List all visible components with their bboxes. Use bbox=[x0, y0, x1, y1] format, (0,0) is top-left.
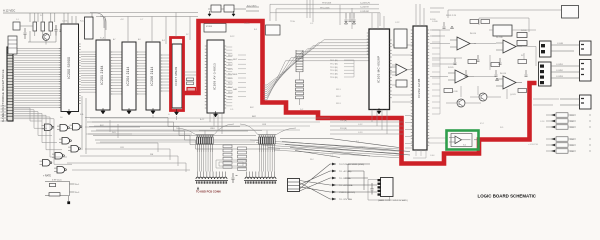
ground arrow C-bank right bbox=[232, 11, 235, 16]
wire bus IC206-IC207 bbox=[160, 55, 171, 91]
resistor group right amp bias bbox=[444, 20, 527, 93]
wire IC202 outputs to audio highlight bbox=[427, 30, 447, 143]
delay line DL201 bbox=[493, 25, 512, 36]
net label speckles sheet-wide bbox=[16, 15, 545, 161]
resistor pair R220 R221 bbox=[517, 33, 527, 46]
svg-text:TO -12V 08A: TO -12V 08A bbox=[339, 198, 352, 201]
svg-text:IC202 AZ4B: IC202 AZ4B bbox=[417, 78, 421, 97]
svg-text:IC208 AY-3-8913: IC208 AY-3-8913 bbox=[213, 63, 217, 90]
wire fan bus to IC205 inputs bbox=[264, 40, 370, 100]
connector P208 bbox=[580, 95, 592, 109]
wire right section interconnects bbox=[430, 10, 561, 105]
resistor array RP202 comb bbox=[258, 135, 276, 152]
svg-text:TP-6 (B): TP-6 (B) bbox=[330, 77, 338, 79]
IC203 latch box bbox=[204, 24, 226, 33]
wire IC205 bottom risers to bus bbox=[372, 110, 387, 135]
wire comb-to-cable verticals bbox=[197, 152, 274, 172]
component cluster crystal network right of IC207 bbox=[184, 72, 196, 94]
svg-text:IC204 2114: IC204 2114 bbox=[126, 66, 130, 85]
IC202 address decoder bbox=[411, 26, 429, 150]
wire +12VDC top rail bbox=[3, 8, 96, 13]
ground arrow below IC201 bbox=[101, 108, 105, 114]
svg-text:C-201: C-201 bbox=[62, 21, 68, 23]
wire CPU top pins bbox=[64, 13, 76, 24]
IC211 buffer box bbox=[394, 29, 407, 48]
svg-text:IC207 MN2N: IC207 MN2N bbox=[174, 66, 178, 85]
connector J206 video out bbox=[540, 41, 580, 57]
svg-text:IN-914: IN-914 bbox=[500, 73, 507, 75]
green highlight box bbox=[447, 131, 479, 150]
capacitor group C210-C213 with grounds bbox=[345, 13, 356, 24]
wire top rail TP lines to right section bbox=[270, 4, 380, 26]
ground arrow below IC208 bbox=[213, 111, 217, 117]
svg-text:C-243 12V: C-243 12V bbox=[360, 2, 371, 4]
svg-text:TO +12V 08A: TO +12V 08A bbox=[339, 184, 353, 187]
wire IC202 top risers bbox=[416, 4, 444, 26]
op-amp U203 bbox=[448, 70, 474, 83]
svg-text:LOGIC BOARD SCHEMATIC: LOGIC BOARD SCHEMATIC bbox=[478, 194, 537, 200]
wire bus IC204-IC206 bbox=[136, 52, 146, 94]
resistor R201 R202 R203 pull-up cluster bbox=[33, 13, 53, 36]
wire stubs SD bus to red trace bbox=[238, 55, 246, 96]
IC205 video controller MC-6528P bbox=[367, 29, 392, 110]
wire bus cartridge-to-CPU address/data lines bbox=[13, 49, 61, 108]
svg-text:R-241 2.2K: R-241 2.2K bbox=[446, 15, 457, 17]
svg-text:+ RATE: + RATE bbox=[43, 175, 51, 178]
svg-text:TP-2 (B): TP-2 (B) bbox=[330, 63, 338, 65]
wire IC205 top risers bbox=[372, 13, 384, 29]
svg-text:R-246: R-246 bbox=[521, 30, 527, 32]
net label column SD bus bbox=[228, 55, 233, 98]
power net arrows and labels bbox=[332, 163, 336, 166]
svg-text:TO +5V (8A): TO +5V (8A) bbox=[339, 170, 352, 173]
resistor array vertical comb RP204 bbox=[296, 50, 303, 72]
svg-text:DL-240: DL-240 bbox=[496, 37, 503, 39]
svg-text:TP-4 (B): TP-4 (B) bbox=[330, 70, 338, 72]
buffer IC212 small box bbox=[85, 17, 94, 39]
capacitor C202 C203 marks bbox=[24, 25, 63, 39]
connector P201 side box bbox=[8, 36, 17, 54]
capacitor row above op-amps bbox=[454, 55, 502, 65]
svg-text:C-244 5V: C-244 5V bbox=[360, 7, 369, 9]
red highlight box around IC207 bbox=[171, 38, 184, 111]
svg-text:C-245 B2: C-245 B2 bbox=[360, 11, 370, 13]
svg-text:TO KBD PCB CONN: TO KBD PCB CONN bbox=[196, 189, 221, 193]
resistor ladder RP203 bbox=[296, 72, 304, 105]
capacitor bank above IC208 bbox=[208, 5, 259, 12]
svg-text:TO POWER SW/R (GND): TO POWER SW/R (GND) bbox=[339, 164, 364, 166]
wire IC208 bottom risers bbox=[153, 113, 222, 134]
connector P206 bbox=[580, 41, 592, 55]
svg-text:PWR/G (REG/5): PWR/G (REG/5) bbox=[339, 192, 355, 194]
svg-text:R-245: R-245 bbox=[448, 67, 454, 69]
wire rounded bus corners top-left bbox=[92, 13, 106, 30]
op-amp U204 bbox=[496, 76, 522, 89]
wire vertical risers left of staircase bbox=[82, 96, 86, 154]
wire bus control lines mid board bbox=[86, 118, 330, 142]
svg-text:TP-1 (B): TP-1 (B) bbox=[330, 60, 338, 62]
transistor Q203 bbox=[457, 99, 465, 107]
capacitor C201 bbox=[55, 25, 58, 36]
svg-text:C-240: C-240 bbox=[557, 43, 564, 45]
red highlighted signal trace main path bbox=[183, 21, 537, 164]
trimmer VR201 bbox=[396, 80, 407, 87]
svg-text:TO -5V 08A: TO -5V 08A bbox=[339, 177, 351, 180]
resistor divider column R-group A bbox=[223, 145, 232, 168]
svg-text:A 12 VDC: A 12 VDC bbox=[3, 8, 15, 12]
svg-text:GAME CARTRIDGE RECEPTACLE: GAME CARTRIDGE RECEPTACLE bbox=[1, 69, 5, 122]
svg-text:IC-A: IC-A bbox=[100, 37, 105, 40]
svg-text:TP-E (5V): TP-E (5V) bbox=[322, 3, 332, 5]
wire test point stubs bbox=[344, 60, 354, 77]
IC208 sound chip AY-3-8913 bbox=[205, 40, 226, 113]
wire top data bus rail B bbox=[96, 16, 198, 18]
net label specks right section bbox=[432, 15, 527, 96]
IC204 RAM 2114 bbox=[122, 42, 138, 110]
wire bundle into J205 bbox=[336, 164, 377, 199]
svg-text:C-2452: C-2452 bbox=[556, 70, 564, 72]
wire cluster verticals top-left bbox=[20, 13, 56, 45]
op-amp U205a buffer bbox=[390, 64, 412, 76]
net label test point column bbox=[330, 60, 338, 79]
wire power fan-out X crossing bbox=[300, 164, 337, 199]
IC206 RAM 2114 bbox=[146, 42, 162, 110]
nested wire rectangles below resistor columns bbox=[216, 160, 246, 168]
wire gate interconnects staircase bbox=[13, 108, 72, 164]
wire bus IC201-IC204 bbox=[110, 52, 122, 94]
IC207 video chip (red highlighted) bbox=[172, 44, 182, 108]
svg-text:P02 (A): P02 (A) bbox=[340, 119, 347, 122]
connector J205 main power board bbox=[378, 178, 394, 197]
svg-text:IN-914: IN-914 bbox=[470, 33, 477, 35]
wire IC202 lower input stubs from red trace region bbox=[405, 116, 413, 149]
resistor R210 (red highlighted) bbox=[187, 88, 196, 92]
resistor array RP201 comb bbox=[196, 135, 214, 152]
net labels right of IC208 bbox=[226, 46, 232, 48]
wire comb feed arcs bbox=[176, 124, 296, 135]
net label TP row stack bbox=[320, 2, 371, 12]
svg-text:Q-240: Q-240 bbox=[452, 91, 458, 93]
pin label text block lower-left bbox=[1, 105, 8, 107]
connector P207 bbox=[580, 60, 592, 82]
wire diagonal trunk upper power bbox=[280, 139, 410, 158]
svg-text:+ 0.5V P-B: + 0.5V P-B bbox=[528, 144, 538, 146]
svg-text:C-2453: C-2453 bbox=[556, 76, 564, 78]
net list rows right lower bbox=[546, 113, 590, 117]
wire long returns staircase to keyboard section bbox=[85, 118, 280, 150]
svg-text:R-240: R-240 bbox=[430, 19, 436, 21]
IC200 CPU S9900 bbox=[59, 24, 81, 112]
box TP202 test point bbox=[266, 25, 281, 35]
connector J200 game cartridge receptacle bbox=[1, 47, 13, 122]
modulator box top right bbox=[562, 6, 579, 19]
ground arrow below IC204 bbox=[127, 108, 131, 114]
ground arrow C-bank left bbox=[208, 11, 211, 16]
svg-text:Q-241: Q-241 bbox=[510, 94, 516, 96]
ground arrow below IC207 bbox=[174, 109, 178, 115]
op-amp U201 video amp bbox=[450, 37, 476, 50]
net labels gate outputs bbox=[100, 125, 154, 156]
IC201 RAM 2164 bbox=[96, 40, 112, 110]
svg-text:TP-A: TP-A bbox=[290, 20, 295, 23]
svg-text:TP-C (5V): TP-C (5V) bbox=[320, 7, 330, 9]
svg-text:TP-3 (B): TP-3 (B) bbox=[330, 67, 338, 69]
wire bus rows to expansion connector bbox=[330, 122, 403, 134]
svg-text:IC201 2164: IC201 2164 bbox=[100, 65, 104, 84]
svg-text:(MAIN CON/POWER BOARD): (MAIN CON/POWER BOARD) bbox=[378, 199, 408, 202]
wire risers top bus to IC tops bbox=[105, 13, 190, 45]
connector key box top-left bbox=[13, 22, 20, 30]
svg-text:C-210: C-210 bbox=[244, 23, 250, 25]
oscillator sub-circuit X201 bbox=[45, 182, 75, 205]
resistor divider column R-group B bbox=[238, 147, 247, 170]
wire bus CPU-to-RAM data lines bbox=[81, 52, 96, 92]
transistor Q201 bbox=[43, 34, 50, 41]
svg-text:C-240: C-240 bbox=[432, 21, 438, 23]
wire top data bus rail A bbox=[90, 12, 198, 14]
ground arrow below IC200 bbox=[67, 109, 71, 115]
capacitor filter block C-100 bbox=[368, 180, 390, 201]
vertical riser bundle above IC205 bbox=[307, 0, 352, 29]
wire diagonal bundle to expansion corner bbox=[250, 140, 399, 158]
svg-text:P03 (B): P03 (B) bbox=[340, 128, 347, 130]
op-amp U202 bbox=[496, 40, 522, 53]
ground arrow below IC206 bbox=[151, 108, 155, 114]
svg-text:IC205 MC-6528P: IC205 MC-6528P bbox=[376, 56, 380, 83]
transistor Q202 bbox=[479, 93, 487, 101]
svg-text:IC203: IC203 bbox=[206, 26, 213, 28]
logic gate cluster IC210 bbox=[40, 124, 82, 174]
svg-text:C-2451: C-2451 bbox=[556, 64, 564, 66]
svg-text:IC200 S9900: IC200 S9900 bbox=[67, 57, 71, 79]
capacitor marks right section bbox=[443, 22, 528, 81]
op-amp IC206 audio amp inside highlight bbox=[449, 134, 478, 147]
keyboard cable loops J203 bbox=[244, 172, 277, 184]
svg-text:B-12 (8V): B-12 (8V) bbox=[247, 5, 257, 7]
net labels expansion rows bbox=[340, 119, 363, 134]
ground arrow below IC205 bbox=[377, 108, 381, 114]
connector J204 power input bbox=[288, 179, 300, 192]
wire gate outputs to bus staircase bbox=[67, 120, 190, 172]
capacitor C230 between cable groups bbox=[232, 173, 238, 183]
svg-text:3 RF (5-0): 3 RF (5-0) bbox=[52, 180, 62, 182]
svg-text:IC206 2114: IC206 2114 bbox=[150, 66, 154, 85]
wire stubs below IC202 bottom bbox=[413, 150, 426, 158]
svg-text:TP-5 (B): TP-5 (B) bbox=[330, 74, 338, 76]
connector J207 monitor bbox=[539, 62, 580, 86]
keyboard cable loops J202 bbox=[195, 172, 228, 184]
wire IC205 right links to amps bbox=[392, 45, 413, 102]
svg-text:CRU: CRU bbox=[210, 128, 215, 130]
